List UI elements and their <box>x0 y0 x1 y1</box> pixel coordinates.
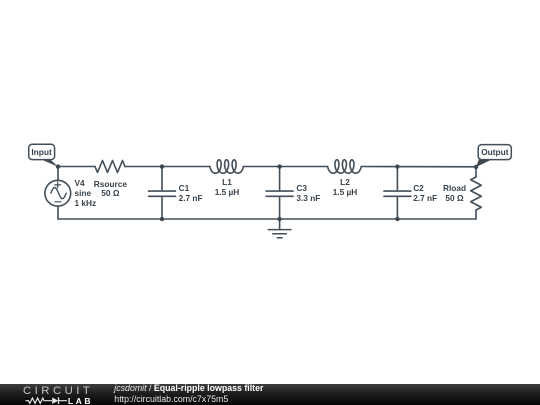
inductor L2 <box>328 160 362 173</box>
node dot C1 bottom <box>160 217 164 221</box>
voltage source V4 plus sign <box>55 182 61 188</box>
inductor L1 <box>210 160 244 173</box>
label L1 1.5uH <box>215 178 240 198</box>
wire bottom rail <box>58 218 476 220</box>
wire L2 to output node <box>361 166 476 168</box>
capacitor C1 wires <box>161 167 163 220</box>
capacitor C3 wires <box>279 167 281 220</box>
label L2 1.5uH <box>333 178 358 198</box>
wire resistor to L1 (through node C1) <box>125 166 210 168</box>
label C2 2.7nF <box>413 184 437 204</box>
wire L1 to L2 (through node C3) <box>243 166 327 168</box>
voltage source V4 minus sign <box>55 201 61 203</box>
label Rsource 50 ohm <box>94 180 127 200</box>
resistor Rload top wire <box>475 167 477 177</box>
capacitor C3 plates <box>266 191 293 196</box>
Input flag pointer <box>40 159 58 167</box>
voltage source V4 circle <box>45 180 71 206</box>
Output flag pointer <box>476 159 492 167</box>
capacitor C1 plates <box>149 191 176 196</box>
resistor Rload bottom wire <box>475 210 477 219</box>
node dot output <box>474 165 478 169</box>
CircuitLab logo LAB <box>68 396 93 405</box>
node dot C2 bottom <box>395 217 399 221</box>
voltage source V4 sine symbol <box>51 188 67 199</box>
capacitor C2 wires <box>396 167 398 220</box>
ground bar 3 <box>277 237 282 239</box>
CircuitLab logo wordmark CIRCUIT <box>23 385 93 397</box>
bottom black footer bar <box>0 384 540 405</box>
Output flag box <box>478 145 511 160</box>
node dot C2 top <box>395 164 399 168</box>
resistor Rload zigzag <box>471 177 482 210</box>
Input flag box <box>29 144 55 159</box>
ground bar 2 <box>273 233 287 235</box>
node dot input <box>56 164 60 168</box>
svg-text:Input: Input <box>31 147 52 157</box>
svg-text:Output: Output <box>481 147 509 157</box>
label C1 2.7nF <box>179 184 203 204</box>
node dot C3 top <box>277 164 281 168</box>
node dot C1 top <box>160 164 164 168</box>
label V4 sine 1 kHz <box>75 179 97 208</box>
node dot C3 bottom / ground <box>277 217 281 221</box>
voltage source V4 vertical wires <box>57 167 59 220</box>
label C3 3.3nF <box>296 184 320 204</box>
footer title line <box>114 383 263 393</box>
resistor Rsource <box>95 161 125 173</box>
label Rload 50 ohm <box>443 184 466 204</box>
ground stub wire <box>279 219 281 230</box>
ground bar 1 <box>268 229 291 231</box>
footer url line <box>114 394 228 404</box>
CircuitLab logo resistor-diode glyph <box>24 396 70 405</box>
wire top rail segment source to resistor <box>58 166 95 168</box>
capacitor C2 plates <box>384 191 411 196</box>
